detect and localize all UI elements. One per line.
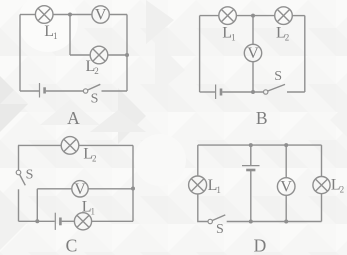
wire B bottom-right segment [287, 91, 305, 93]
wire A bottom-left segment [20, 90, 39, 92]
battery (D) [242, 166, 260, 170]
wire D left upper [197, 145, 199, 176]
wire C right side [132, 145, 134, 221]
wire D voltmeter branch lower [285, 195, 287, 221]
wire C bottom-right segment [92, 220, 133, 222]
switch S (C) [16, 170, 25, 185]
svg-text:V: V [280, 179, 292, 196]
battery (C) [55, 213, 60, 230]
node junction C-bottom [35, 219, 39, 223]
wire B bottom-left segment [200, 91, 215, 93]
wire C left upper [18, 145, 20, 170]
node junction A-top [68, 13, 72, 17]
wire B middle branch lower [252, 62, 254, 92]
node junction D voltmeter top [284, 143, 288, 147]
wire A bottom-right segment [102, 90, 128, 92]
lamp L2 (A) [90, 46, 108, 64]
node junction D battery top [249, 143, 253, 147]
node junction D voltmeter bottom [284, 220, 288, 224]
svg-text:S: S [216, 222, 224, 237]
wire D right upper [321, 145, 323, 176]
wire C top-left segment [18, 144, 61, 146]
wire C bottom middle [62, 220, 75, 222]
wire A top middle [53, 14, 92, 16]
lamp L1 (B) [219, 7, 237, 25]
voltmeter V (B) [244, 44, 261, 62]
wire B left side [199, 16, 201, 92]
switch S (B) [264, 84, 286, 94]
wire D bottom [227, 221, 322, 223]
wire D left lower [198, 194, 208, 222]
svg-text:S: S [274, 69, 282, 84]
wire A top-left segment [20, 14, 35, 16]
battery (A) [40, 83, 45, 98]
lamp L1 (A) [35, 6, 53, 24]
wire A top-right segment [109, 14, 127, 16]
svg-text:S: S [91, 92, 99, 107]
wire C middle left of V [37, 188, 72, 190]
wire D right lower [321, 194, 323, 222]
switch S (A) [83, 84, 100, 93]
wire A branch horizontal right of L2 [108, 54, 127, 56]
wire C middle right of V [88, 188, 133, 190]
wire D voltmeter branch upper [285, 145, 287, 178]
wire C bottom-left segment [19, 220, 55, 222]
wire D top [198, 144, 322, 146]
wire B top-left segment [200, 15, 219, 17]
wire D battery branch lower [250, 171, 252, 222]
node junction B-top [251, 14, 255, 18]
wire A branch horizontal left of L2 [70, 54, 90, 56]
svg-text:S: S [26, 168, 34, 183]
lamp L2 (C) [61, 137, 79, 155]
svg-text:A: A [67, 108, 80, 128]
node junction C-right [131, 187, 135, 191]
lamp L2 (B) [275, 7, 293, 25]
voltmeter V (A) [92, 6, 109, 24]
voltmeter V (D) [277, 178, 295, 196]
wire B top-right segment [292, 15, 305, 17]
svg-text:B: B [256, 108, 268, 128]
battery (B) [216, 85, 221, 100]
switch S (D) [208, 215, 225, 224]
wire B top middle [236, 15, 274, 17]
svg-text:D: D [254, 235, 267, 255]
voltmeter V (C) [72, 181, 88, 198]
node junction B-bottom [251, 90, 255, 94]
wire B right side [304, 16, 306, 92]
svg-text:V: V [247, 45, 259, 62]
wire A bottom middle [46, 90, 84, 92]
lamp L1 (D) [189, 176, 207, 194]
wire C left lower [18, 189, 20, 221]
wire D battery branch upper [250, 145, 252, 165]
svg-text:V: V [74, 181, 86, 198]
node junction D battery bottom [249, 220, 253, 224]
wire C stub vertical [36, 189, 38, 222]
svg-text:C: C [66, 235, 78, 255]
wire B middle branch upper [252, 16, 254, 45]
wire A branch vertical from junction [69, 15, 71, 56]
lamp L1 (C) [74, 213, 91, 230]
wire A left side [19, 15, 21, 92]
wire B bottom middle [222, 91, 263, 93]
wire C top-right segment [79, 144, 133, 146]
svg-text:V: V [95, 7, 107, 24]
lamp L2 (D) [313, 177, 330, 194]
wire A right side [126, 15, 128, 92]
node junction A-right [125, 53, 129, 57]
